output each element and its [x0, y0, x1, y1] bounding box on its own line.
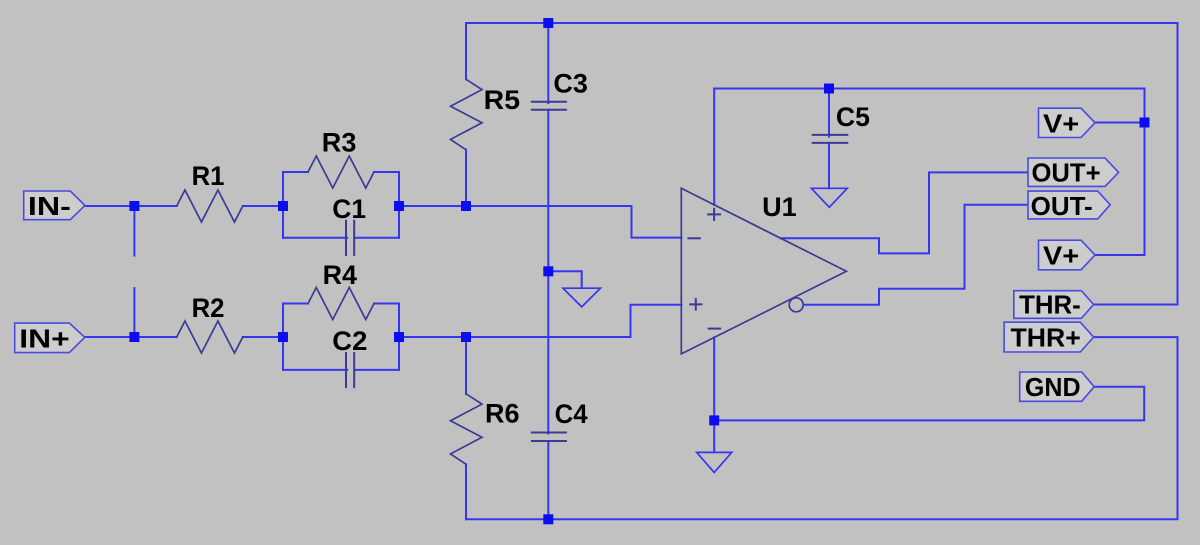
flag IN- [24, 191, 85, 220]
wire box R4C2 right edge [398, 304, 400, 370]
svg-text:V+: V+ [1043, 111, 1079, 139]
wire top rail to THR- [466, 23, 1178, 305]
svg-text:C1: C1 [332, 194, 366, 224]
svg-text:R1: R1 [192, 161, 225, 191]
svg-text:R2: R2 [192, 293, 225, 323]
wire R1 to box [243, 205, 283, 207]
junction IN+ node [129, 332, 139, 342]
wire C3-C4 vertical [547, 110, 549, 434]
svg-text:V+: V+ [1043, 242, 1079, 270]
resistor R6 [451, 394, 483, 464]
wire R2 to box [243, 336, 283, 338]
wire V+ to V+ link [1095, 123, 1145, 256]
wire OUT+ net [781, 172, 1029, 253]
wire box R4C2 bottom left [283, 369, 347, 371]
wire box R4C2 bottom right [354, 369, 399, 371]
wire ground tap [548, 271, 581, 288]
junction C4 bottom [543, 514, 553, 524]
wire R6 top [465, 337, 467, 394]
flag THR+ [1004, 322, 1094, 352]
wire to op-amp plus input [399, 305, 682, 337]
junction C5 top [824, 84, 834, 94]
wire box R4C2 top left [283, 303, 308, 305]
wire op-amp bottom pin [713, 337, 715, 452]
junction R5 bottom node [461, 201, 471, 211]
junction R3C1 right [394, 201, 404, 211]
flag V+ second [1039, 240, 1096, 270]
svg-text:THR+: THR+ [1011, 325, 1081, 353]
capacitor C2 [346, 353, 354, 387]
resistor R3 [308, 156, 374, 188]
svg-text:R4: R4 [323, 260, 357, 290]
op-amp U1 [681, 188, 846, 354]
capacitor C4 [532, 433, 566, 442]
wire box R3C1 left edge [282, 172, 284, 238]
wire C5 bottom [828, 143, 830, 188]
wire bottom rail to THR+ [466, 337, 1178, 519]
resistor R1 [177, 190, 243, 222]
junction R4C2 left [278, 332, 288, 342]
wire box R3C1 top right [374, 171, 399, 173]
ground G1 [563, 288, 600, 307]
wire box R3C1 right edge [398, 172, 400, 238]
ground G2 [811, 188, 847, 207]
wire IN+ row [85, 336, 177, 338]
wire C4 bottom [547, 441, 549, 519]
junction V+ node [1140, 118, 1150, 128]
op-amp minus input marker [688, 237, 699, 239]
op-amp plus input marker [690, 299, 701, 310]
wire op-amp top pin [713, 89, 715, 205]
svg-text:GND: GND [1025, 374, 1081, 402]
wire box R4C2 top right [374, 303, 399, 305]
op-amp plus power marker [708, 209, 720, 220]
ground G3 [697, 452, 732, 472]
wire box R3C1 bottom right [354, 237, 399, 239]
junction ground tap [543, 266, 553, 276]
svg-text:R6: R6 [485, 399, 519, 429]
wire V+ rail [714, 89, 1144, 123]
flag THR- [1014, 291, 1094, 319]
resistor R5 [451, 79, 483, 149]
svg-text:C3: C3 [553, 69, 588, 99]
wire IN+ stub [133, 288, 135, 337]
wire R5 bottom [465, 150, 467, 206]
wire to op-amp minus input [399, 206, 682, 238]
op-amp inverting output circle [789, 298, 803, 312]
flag OUT+ [1028, 158, 1119, 186]
junction R6 top node [461, 332, 471, 342]
junction R4C2 right [394, 332, 404, 342]
op-amp minus power marker [709, 328, 720, 330]
junction IN- node [129, 201, 139, 211]
svg-text:IN-: IN- [28, 193, 71, 221]
svg-text:OUT-: OUT- [1031, 193, 1093, 221]
capacitor C5 [813, 135, 848, 143]
junction op-amp gnd [709, 415, 719, 425]
svg-text:OUT+: OUT+ [1032, 160, 1101, 188]
wire IN- stub [133, 206, 135, 256]
wire box R4C2 left edge [282, 304, 284, 370]
capacitor C1 [346, 221, 354, 255]
svg-text:R3: R3 [322, 128, 357, 158]
flag OUT- [1028, 191, 1110, 219]
svg-text:C2: C2 [332, 326, 367, 356]
svg-text:C5: C5 [836, 102, 870, 132]
capacitor C3 [532, 102, 566, 110]
flag IN+ [15, 323, 85, 353]
svg-text:THR-: THR- [1019, 292, 1081, 320]
wire OUT- net [803, 205, 1028, 305]
junction C3 top [543, 18, 553, 28]
wire IN- row [85, 205, 177, 207]
wire box R3C1 top left [283, 171, 308, 173]
svg-text:R5: R5 [484, 85, 520, 115]
wire GND net [714, 387, 1144, 421]
svg-text:U1: U1 [762, 192, 797, 222]
resistor R2 [177, 321, 243, 353]
svg-text:C4: C4 [555, 399, 588, 429]
wire R6 bottom [465, 464, 467, 519]
flag GND [1020, 372, 1094, 401]
wire C3 top [547, 23, 549, 103]
wire C5 top [828, 89, 830, 137]
resistor R4 [308, 288, 374, 320]
wire R5 top [465, 23, 467, 79]
junction R3C1 left [278, 201, 288, 211]
svg-text:IN+: IN+ [19, 325, 69, 353]
wire box R3C1 bottom left [283, 237, 347, 239]
flag V+ top [1039, 108, 1096, 137]
